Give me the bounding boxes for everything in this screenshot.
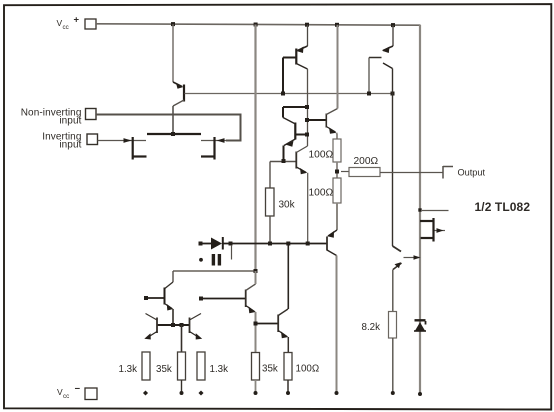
- pad: non-inverting input: [86, 109, 97, 120]
- wire: Q8 emitter down to mirror bar: [172, 309, 174, 325]
- transistor Q5 (NPN to 100R, emitter follower): [307, 109, 338, 134]
- node: rail junction dots: [171, 22, 395, 27]
- output terminal: [443, 166, 453, 179]
- wire: inverting input to left JFET gate: [98, 140, 125, 142]
- node dots on base line: [367, 92, 371, 96]
- svg-text:8.2k: 8.2k: [362, 322, 381, 333]
- Vcc+ label: [57, 15, 80, 32]
- resistor R4 30k: [266, 188, 275, 216]
- transistor Q10 (mirror right): [190, 314, 203, 340]
- node: 100R(3) bottom terminal dot: [286, 391, 290, 395]
- wire: y=107 link: [283, 106, 307, 108]
- node: mirror bar junctions: [171, 323, 175, 327]
- svg-text:−: −: [75, 384, 81, 395]
- JFET J1 (inverting input): [124, 137, 147, 160]
- transistor Q4 (PNP, middle stack): [283, 118, 307, 162]
- current mirror bar: [157, 324, 190, 326]
- transistor Q12 (NPN above 100R): [278, 309, 288, 338]
- wire: 200R to output terminal: [380, 172, 443, 174]
- svg-text:30k: 30k: [279, 200, 296, 211]
- wire: Q5 collector up to rail: [337, 25, 339, 109]
- transistor Q2 (top middle PNP): [283, 25, 308, 94]
- node: Q7 collector terminal dot: [335, 391, 339, 395]
- svg-text:input: input: [59, 116, 81, 127]
- wire: right main rail (x=420): [419, 25, 421, 393]
- resistor R7 1.3k right: [197, 352, 205, 380]
- svg-text:200Ω: 200Ω: [354, 156, 379, 167]
- resistor R5 1.3k left: [142, 352, 150, 380]
- wire: Q2 collector down (x=307): [307, 69, 309, 146]
- wire: Q13 emitter down to 8.2k: [392, 270, 394, 312]
- svg-text:100Ω: 100Ω: [309, 150, 334, 161]
- resistor R10 8.2k: [389, 312, 397, 339]
- svg-text:100Ω: 100Ω: [296, 364, 320, 375]
- svg-text:1.3k: 1.3k: [210, 364, 229, 375]
- svg-text:100Ω: 100Ω: [309, 188, 334, 199]
- wire: 30k bottom: [269, 216, 271, 244]
- node: y=271 / rail junction: [254, 269, 258, 273]
- svg-text:35k: 35k: [156, 364, 172, 375]
- node: 8.2k bottom terminal dot: [391, 391, 395, 395]
- transistor Q13 (output PNP right): [393, 246, 421, 270]
- transistor Q3 (top right PNP): [369, 25, 393, 93]
- svg-text:1.3k: 1.3k: [119, 364, 138, 375]
- wire: non-inverting input to right JFET gate: [96, 115, 241, 141]
- capacitor C1: [199, 245, 231, 266]
- node: Q8 base dot: [144, 296, 148, 300]
- node dot: [281, 92, 285, 96]
- svg-text:cc: cc: [63, 393, 69, 400]
- node: 35k(2) bottom terminal dot: [254, 391, 258, 395]
- node dots on comp line: [199, 242, 203, 246]
- diode D1: [211, 238, 222, 250]
- wire: Q1 collector down to JFET sources: [172, 106, 174, 134]
- pad: inverting input: [87, 134, 98, 145]
- resistor R9 100R (third): [287, 337, 289, 353]
- wire: long vertical x=392.5 down to output PNP: [392, 69, 394, 247]
- svg-text:input: input: [59, 140, 81, 151]
- transistor Q11 (NPN, emitter to rail x=255): [199, 284, 256, 313]
- Vcc- label: [57, 384, 81, 401]
- wire: gray rail x=255.5: [254, 25, 256, 272]
- transistor Q1 (PNP current source, left): [173, 82, 184, 106]
- svg-text:+: +: [74, 15, 80, 26]
- transistor Q6 (NPN above 30k): [270, 146, 308, 174]
- wire: 30k top link: [269, 162, 271, 189]
- resistor R1 100R upper: [333, 139, 341, 162]
- svg-text:cc: cc: [63, 24, 69, 31]
- resistor R6 35k left: [181, 325, 183, 352]
- node dots column x=307: [305, 105, 309, 109]
- svg-text:35k: 35k: [262, 364, 278, 375]
- wire: junction to 200R: [341, 171, 349, 173]
- Vcc+ pad: [85, 19, 96, 29]
- resistor R3 200R horizontal: [349, 168, 380, 177]
- resistor R8 35k (second): [252, 353, 260, 381]
- node: right rail bottom terminal dot: [418, 392, 422, 396]
- wire + node between R1/R2: [336, 162, 338, 178]
- svg-text:Output: Output: [458, 168, 486, 178]
- node dot at source bar: [171, 132, 175, 136]
- Vcc- pad: [85, 388, 97, 400]
- wire: y=323.5 link to Q12: [256, 323, 279, 325]
- wire: Vcc+ top rail: [96, 24, 421, 25]
- wire: Q7 collector down to Vee: [336, 256, 338, 394]
- diode D2 (zener on right rail): [414, 320, 426, 331]
- input labels: [21, 107, 82, 150]
- transistor Q8 (NPN bottom left): [146, 271, 173, 311]
- JFET J3 (output bias): [418, 208, 448, 241]
- wire: Q5 emitter to R1: [336, 133, 339, 139]
- wire: y=271 link: [173, 270, 256, 272]
- wire: common source bar: [147, 133, 201, 135]
- node: Q4 emitter / Q6 base junction: [282, 159, 286, 163]
- transistor Q7 (PNP second stage): [327, 203, 337, 256]
- wire: vertical drop to Q1 (x=173): [172, 24, 174, 82]
- wire: Q6 emitter down x=307.7: [307, 173, 309, 244]
- JFET J2 (non-inverting input): [201, 137, 226, 160]
- compensation line y=243.5: [201, 243, 212, 245]
- transistor Q9 (mirror left): [144, 314, 157, 340]
- wire: Q12 collector up to comp line: [287, 244, 289, 310]
- wire: base line y=93.5: [185, 93, 393, 95]
- terminal dots under 1.3k resistors: [143, 390, 148, 395]
- node: 35k bottom terminal dot: [180, 391, 184, 395]
- wire: rail continues down through Q11: [255, 271, 257, 284]
- resistor R2 100R lower: [333, 178, 341, 203]
- svg-text:1/2 TL082: 1/2 TL082: [475, 200, 531, 214]
